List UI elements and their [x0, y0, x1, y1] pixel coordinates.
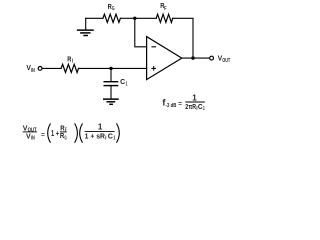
- label R_G: [108, 2, 115, 12]
- wire ground to R_G: [86, 17, 103, 19]
- svg-text:1: 1: [113, 136, 115, 142]
- node A junction dot: [133, 17, 136, 20]
- capacitor C1: [104, 68, 117, 98]
- formula Vout/Vin transfer function: [23, 123, 120, 143]
- resistor R_F: [156, 14, 173, 22]
- label C_1: [120, 77, 127, 88]
- svg-text:-3 dB: -3 dB: [166, 103, 177, 109]
- label V_OUT: [218, 54, 231, 65]
- svg-text:I: I: [72, 59, 74, 65]
- wire R_F to output node: [173, 18, 193, 58]
- wire V_IN to R_I: [42, 67, 61, 69]
- op-amp U1: [147, 37, 182, 80]
- wire node A to inverting input: [135, 18, 147, 47]
- output wire: [182, 57, 210, 59]
- op-amp plus pin mark: [152, 67, 155, 70]
- resistor R_G: [103, 14, 121, 22]
- wire node A to R_F: [135, 17, 156, 19]
- label R_I: [67, 54, 73, 64]
- ground for C1: [104, 99, 118, 104]
- svg-text:=: =: [178, 101, 182, 108]
- svg-text:1 +: 1 +: [51, 129, 59, 138]
- formula f-3dB = 1/(2 pi R_I C_1): [162, 93, 205, 112]
- svg-text:2πR: 2πR: [185, 102, 196, 111]
- svg-text:1: 1: [203, 106, 205, 112]
- op-amp minus pin mark: [152, 46, 155, 48]
- output junction dot: [191, 56, 194, 59]
- V_OUT terminal: [210, 56, 214, 60]
- svg-text:F: F: [164, 6, 166, 12]
- label R_F: [160, 1, 166, 12]
- svg-text:OUT: OUT: [222, 58, 230, 64]
- svg-text:IN: IN: [31, 68, 35, 74]
- svg-text:G: G: [65, 135, 67, 141]
- wire R_G to node A: [120, 17, 134, 19]
- svg-text:G: G: [112, 6, 115, 12]
- V_IN terminal: [38, 67, 42, 71]
- svg-text:1 + sR: 1 + sR: [85, 131, 106, 140]
- node B junction dot: [109, 67, 112, 70]
- label V_IN: [26, 63, 35, 74]
- ground: [78, 18, 93, 35]
- svg-text:1: 1: [126, 82, 128, 88]
- svg-text:F: F: [65, 128, 67, 134]
- resistor R_I: [61, 64, 78, 72]
- svg-text:=: =: [41, 132, 45, 139]
- svg-text:IN: IN: [31, 136, 35, 142]
- svg-text:1: 1: [98, 123, 103, 132]
- wire R_I to noninverting input: [79, 67, 147, 69]
